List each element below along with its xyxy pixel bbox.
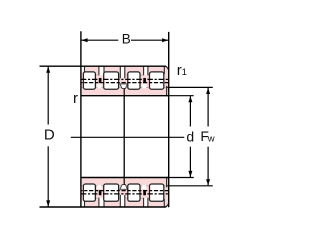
shaft axis line <box>71 136 185 138</box>
dimension d line <box>189 96 191 177</box>
bearing lower half section (mirrored) <box>40 178 169 209</box>
dimension Fw line <box>207 88 209 185</box>
svg-text:r: r <box>73 90 78 107</box>
svg-text:1: 1 <box>182 67 187 78</box>
svg-text:w: w <box>207 133 215 144</box>
inner ring joint line through bore <box>123 96 125 178</box>
bearing upper half section <box>40 65 169 96</box>
d extension top <box>167 95 194 97</box>
dimension D line <box>47 67 49 207</box>
right face line <box>168 32 170 207</box>
dimension B line <box>82 39 169 41</box>
Fw extension top <box>167 86 213 88</box>
left face line <box>80 31 82 207</box>
svg-text:B: B <box>122 31 131 46</box>
svg-text:d: d <box>186 128 194 144</box>
d extension bottom <box>167 177 194 179</box>
svg-text:D: D <box>44 127 55 144</box>
Fw extension bottom <box>167 185 213 187</box>
